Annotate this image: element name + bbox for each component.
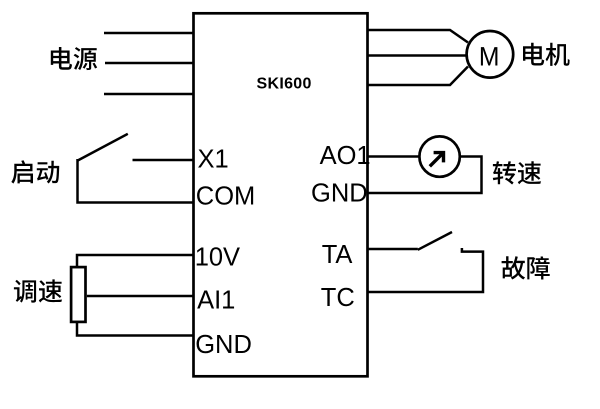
wire fault contact to TC bbox=[368, 248, 484, 292]
wire potentiometer top to 10V bbox=[77, 255, 194, 266]
label 调速 (speed adjust) bbox=[14, 279, 62, 302]
wire potentiometer bottom to GND bbox=[77, 323, 194, 336]
label 电源 (power supply) bbox=[51, 47, 97, 70]
wire switch pole to COM bbox=[78, 159, 194, 203]
label 转速 (speed) bbox=[493, 161, 541, 184]
wire power line L2 bbox=[105, 62, 194, 65]
meter P1 circle bbox=[419, 136, 459, 176]
switch S1 start blade bbox=[78, 134, 128, 161]
svg-text:10V: 10V bbox=[195, 244, 240, 272]
wire X1 input bbox=[133, 159, 194, 162]
svg-text:X1: X1 bbox=[198, 146, 229, 174]
svg-text:GND: GND bbox=[195, 331, 252, 359]
inverter U1 SKI600 box bbox=[194, 13, 368, 376]
svg-text:SKI600: SKI600 bbox=[257, 75, 312, 92]
wire power line L1 bbox=[104, 32, 194, 35]
label 故障 (fault) bbox=[502, 256, 550, 279]
svg-text:TC: TC bbox=[321, 284, 355, 312]
label 启动 (start) bbox=[11, 160, 59, 183]
wire AO1 to meter bbox=[368, 155, 421, 158]
wire TA bbox=[368, 248, 418, 251]
motor M1 circle bbox=[467, 31, 514, 78]
potentiometer RP1 body bbox=[71, 267, 85, 322]
wire meter to GND loop bbox=[368, 157, 482, 194]
svg-text:GND: GND bbox=[311, 179, 368, 207]
meter arrow bbox=[430, 153, 444, 167]
svg-text:AO1: AO1 bbox=[320, 142, 371, 170]
svg-text:TA: TA bbox=[322, 241, 353, 269]
svg-text:COM: COM bbox=[196, 183, 256, 211]
wire motor phase W bbox=[368, 67, 469, 86]
wire power line L3 bbox=[104, 93, 194, 96]
label 电机 (motor) bbox=[523, 43, 570, 66]
motor M letter bbox=[481, 47, 498, 65]
wire motor phase V bbox=[368, 54, 471, 57]
svg-text:AI1: AI1 bbox=[197, 286, 235, 314]
wire motor phase U bbox=[368, 30, 469, 43]
wire potentiometer wiper to AI1 bbox=[87, 295, 194, 298]
switch S2 fault blade bbox=[418, 232, 452, 250]
